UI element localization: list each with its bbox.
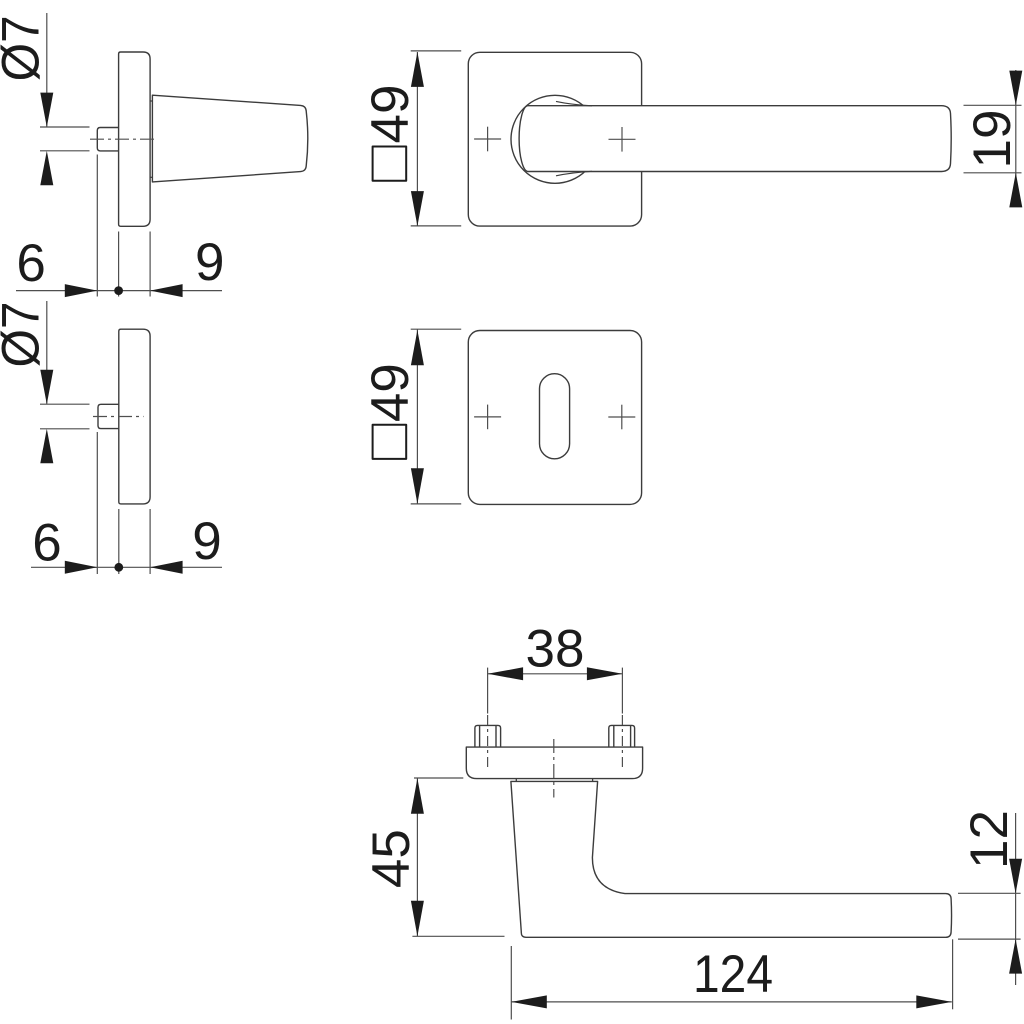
screw center lines (handle top view) (488, 715, 623, 770)
svg-text:Ø7: Ø7 (0, 15, 51, 81)
screw cross left (key rosette front) (474, 405, 501, 430)
square symbol (key rosette front) (373, 425, 407, 459)
screw cross left (handle rosette front) (474, 127, 501, 152)
junction dot (key rosette side view) (114, 563, 123, 572)
arrow 6 (top view) (65, 284, 98, 297)
arrow 38 right (handle top view) (587, 667, 623, 680)
dimension text 45 (handle top view) (362, 829, 421, 888)
dimension line 45 vertical (handle top view) (416, 778, 418, 936)
dimension line 19 vertical (handle rosette front) (1015, 70, 1017, 205)
svg-text:49: 49 (361, 85, 420, 144)
svg-text:49: 49 (361, 363, 420, 422)
dimension text 12 (handle top view) (960, 810, 1019, 869)
dimension text 6 (key rosette side view) (32, 513, 61, 572)
dimension line 12 vertical (handle top view) (1015, 813, 1017, 985)
svg-text:6: 6 (32, 513, 61, 572)
junction dot (top view) (114, 286, 123, 295)
arrow 12 lower (handle top view) (1009, 939, 1022, 974)
extension ticks Ø7 (top view) (40, 127, 90, 151)
extension ticks Ø7 (key rosette side view) (40, 404, 90, 429)
arrow 49 lower (key rosette front) (411, 468, 424, 504)
handle neck and lever (handle top view) (511, 781, 952, 937)
extension ticks 49 (key rosette front) (411, 329, 462, 504)
arrow 19 upper (handle rosette front) (1009, 71, 1022, 106)
arrow 12 upper (handle top view) (1009, 859, 1022, 894)
dimension text 49 (handle rosette front) (361, 85, 420, 144)
arrow 9 (key rosette side view) (150, 561, 183, 574)
spindle pin (top view) (97, 128, 118, 151)
dimension text 49 (key rosette front) (361, 363, 420, 422)
screw cross right (handle rosette front) (609, 127, 636, 152)
arrow Ø7 lower (key rosette side view) (40, 429, 53, 463)
extension lines 38 (handle top view) (488, 668, 623, 714)
arrow 49 upper (handle rosette front) (411, 52, 424, 87)
handle center line (handle top view) (553, 739, 555, 798)
dimension text 38 (handle top view) (526, 619, 585, 678)
svg-text:9: 9 (195, 233, 224, 292)
handle lever (handle rosette front) (519, 106, 951, 172)
dimension text 124 (handle top view) (693, 945, 773, 1004)
svg-text:38: 38 (526, 619, 585, 678)
spindle pin (key rosette side view) (98, 404, 119, 428)
rosette plate (handle top view) (466, 747, 642, 779)
dimension line 6/9 (key rosette side view) (31, 566, 222, 568)
arrow Ø7 lower (top view) (40, 151, 53, 185)
arrow 45 lower (handle top view) (411, 901, 424, 937)
arrow 124 right (handle top view) (916, 995, 952, 1008)
extension lines 6/9 (key rosette side view) (97, 432, 150, 574)
arrow Ø7 upper (key rosette side view) (40, 370, 53, 404)
dimension text 9 (key rosette side view) (192, 512, 221, 571)
svg-text:12: 12 (960, 810, 1019, 869)
center line (top view) (90, 138, 158, 140)
square symbol (handle rosette front) (373, 147, 407, 181)
arrow 19 lower (handle rosette front) (1009, 173, 1022, 208)
square rosette (handle rosette front) (468, 52, 641, 226)
svg-text:Ø7: Ø7 (0, 302, 51, 368)
screw boss right (handle top view) (609, 725, 635, 747)
arrow 38 left (handle top view) (488, 667, 523, 680)
dimension line 124 (handle top view) (511, 1001, 952, 1003)
handle neck collar ticks (top view) (150, 101, 153, 177)
dimension text 9 (top view) (195, 233, 224, 292)
arrow 49 lower (handle rosette front) (411, 191, 424, 226)
dimension line 49 vertical (handle rosette front) (416, 52, 418, 226)
extension ticks 19 (handle rosette front) (964, 105, 1022, 173)
dimension line Ø7 vertical (top view) (46, 13, 48, 127)
rosette profile (key rosette side view) (119, 329, 150, 504)
square rosette (key rosette front) (468, 331, 641, 505)
neck collar (handle top view) (516, 779, 592, 782)
arrow 124 left (handle top view) (511, 995, 547, 1008)
screw cross right (key rosette front) (608, 405, 635, 430)
dimension line 38 (handle top view) (488, 673, 623, 675)
dimension line 49 vertical (key rosette front) (416, 330, 418, 505)
dimension label Ø7 (key rosette side view) (0, 302, 51, 368)
extension ticks 12 (handle top view) (958, 893, 1021, 939)
extension ticks 45 (handle top view) (412, 778, 504, 936)
handle boss circle (handle rosette front) (511, 95, 599, 183)
arrow Ø7 upper (top view) (40, 93, 53, 127)
dimension text 6 (top view) (16, 234, 45, 293)
extension ticks 49 (handle rosette front) (411, 51, 462, 226)
arrow 49 upper (key rosette front) (411, 330, 424, 365)
center line (key rosette side view) (93, 416, 144, 418)
lever-boss fillet upper (handle rosette front) (556, 101, 592, 106)
svg-text:6: 6 (16, 234, 45, 293)
dimension text 19 (handle rosette front) (963, 110, 1022, 169)
extension lines 124 (handle top view) (511, 939, 952, 1019)
svg-text:9: 9 (192, 512, 221, 571)
arrow 9 (top view) (150, 284, 183, 297)
arrow 6 (key rosette side view) (65, 561, 98, 574)
svg-text:45: 45 (362, 829, 421, 888)
arrow 45 upper (handle top view) (411, 778, 424, 814)
handle cone (top view) (152, 95, 307, 182)
rosette profile (top view) (119, 52, 151, 226)
dimension line 6/9 (top view) (16, 290, 222, 292)
dimension line Ø7 vertical (key rosette side view) (46, 301, 48, 404)
dimension label Ø7 (top view) (0, 15, 51, 81)
svg-text:19: 19 (963, 110, 1022, 169)
screw boss left (handle top view) (475, 725, 501, 747)
svg-text:124: 124 (693, 945, 773, 1004)
keyhole (key rosette front) (540, 374, 570, 459)
lever-boss fillet lower (handle rosette front) (556, 171, 592, 176)
extension lines 6/9 (top view) (97, 155, 150, 297)
